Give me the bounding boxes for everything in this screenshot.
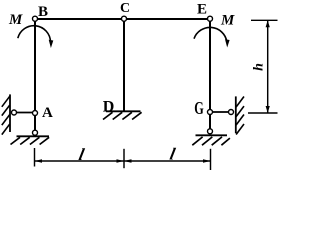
svg-text:A: A — [42, 105, 53, 121]
svg-text:E: E — [197, 2, 207, 18]
svg-text:h: h — [252, 63, 267, 71]
svg-text:B: B — [38, 4, 48, 20]
svg-text:M: M — [8, 12, 23, 28]
svg-text:M: M — [220, 13, 235, 29]
svg-text:D: D — [103, 99, 115, 116]
svg-text:G: G — [194, 99, 204, 119]
svg-text:C: C — [120, 1, 130, 16]
